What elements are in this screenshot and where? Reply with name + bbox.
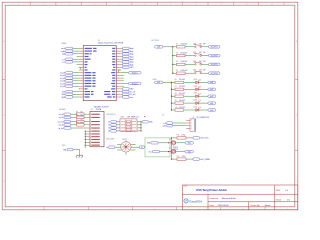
svg-text:10K: 10K [80,122,82,124]
svg-text:SW1: SW1 [193,43,196,45]
wire [71,116,77,118]
svg-text:DIP_SWITCh x 4: DIP_SWITCh x 4 [128,116,140,118]
wire [84,113,87,115]
switch SW3 [194,62,202,65]
port flag Button1 [129,71,142,74]
net flag swdio [66,50,73,52]
svg-text:J4: J4 [193,117,195,119]
wire from U1 right pin row 19 [121,96,123,98]
resistor R7 [175,88,184,90]
svg-text:Date:: Date: [209,204,214,207]
dip switch element 1 [126,121,130,123]
svg-text:led5: led5 [210,110,213,112]
wire [85,136,87,138]
wire [85,144,87,146]
wire [172,88,176,90]
wire [199,109,208,111]
wire [176,142,185,144]
svg-text:4: 4 [94,4,95,6]
net flag sda5 [167,125,173,127]
svg-text:txd0: txd0 [62,53,65,56]
svg-text:DV6 Tang Primer Addon: DV6 Tang Primer Addon [196,188,227,192]
svg-text:d1: d1 [108,122,110,124]
transistor Q1 [167,141,176,146]
svg-text:2025-09-09: 2025-09-09 [218,205,229,207]
net flag GND [123,66,130,68]
wire [115,146,118,148]
resistor R8 [77,124,85,127]
net flag sd_clk [64,124,71,126]
junction [171,102,172,103]
wire [184,88,195,90]
svg-text:dbg6: dbg6 [130,64,134,66]
wire from U1 right pin row 17 [121,91,123,93]
wire [116,124,120,126]
svg-text:SW5: SW5 [121,116,124,118]
svg-text:SW3: SW3 [193,61,196,63]
ic U1 body [83,46,116,101]
wire to U1 left pin row 5 [73,58,79,60]
svg-text:4: 4 [154,208,155,210]
net flag enc_b [139,146,144,148]
wire [199,88,208,90]
junction [168,151,169,152]
svg-text:KEY_TVB: KEY_TVB [199,61,205,63]
wire [185,55,194,57]
power flag 3V3 [155,81,164,84]
U2 left pins [87,114,90,145]
svg-text:10KΩ 0402: 10KΩ 0402 [181,61,188,63]
svg-text:led2: led2 [210,89,213,91]
svg-text:Button2: Button2 [132,82,138,85]
svg-text:R2: R2 [176,52,178,54]
wire [116,121,120,123]
svg-text:d2: d2 [108,125,110,127]
wire to U1 left pin row 10 [73,72,79,74]
wire from U1 right pin row 2 [121,50,123,52]
svg-text:5V0: 5V0 [188,143,191,145]
net flag dbg3 [123,55,130,57]
svg-text:SW2: SW2 [193,52,196,54]
wire [184,81,195,83]
wire [160,151,168,153]
wire to U1 left pin row 2 [73,50,79,52]
wire [71,124,77,126]
wire [163,46,173,48]
net flag I2C_dat [123,93,130,95]
svg-text:R8: R8 [76,122,78,124]
svg-text:TF-01A: TF-01A [96,108,103,111]
wire to U1 left pin row 3 [73,53,79,55]
wire [172,109,176,111]
wire [85,133,87,135]
U1 right pins [116,48,121,97]
svg-text:3V3: 3V3 [157,82,160,84]
svg-text:sd_clk: sd_clk [59,125,64,127]
junction [85,142,86,143]
wire [172,102,176,104]
wire [185,72,194,74]
svg-text:4: 4 [191,128,192,130]
wire stubs U1 left rows 4,7 [77,56,79,58]
svg-text:10K: 10K [80,119,82,121]
wire to U1 left pin row 1 [73,47,79,49]
svg-text:R7: R7 [175,86,177,88]
encoder left pins [117,143,121,145]
net flag lcd_d2 [66,77,73,79]
svg-text:sd_cmd: sd_cmd [57,121,63,123]
resistor R2 [177,54,186,56]
svg-text:KEY_TVB: KEY_TVB [199,43,205,45]
ground symbol [76,155,83,158]
svg-text:8: 8 [196,4,197,6]
wire from U1 right pin row 1 [121,47,123,49]
net flag SCL [153,150,160,152]
encoder top pin [125,141,127,142]
wire from U1 right pin row 7 [121,64,123,66]
svg-text:swdio: swdio [61,51,65,53]
svg-text:2: 2 [66,208,67,210]
resistor R9 [175,102,184,104]
junction [171,158,172,159]
wire [199,81,208,83]
svg-text:swclk: swclk [61,48,65,50]
net flag SDA [151,142,158,144]
svg-text:mI2C_CLK: mI2C_CLK [200,138,209,140]
svg-text:R6: R6 [175,79,177,81]
wire [116,127,120,129]
svg-text:LED1: LED1 [194,79,198,81]
svg-text:R10: R10 [175,107,178,109]
wire [199,102,208,104]
net flag GND [66,93,73,95]
wire from U1 right pin row 10 [121,72,129,74]
dip switch element 4 [126,130,130,132]
svg-text:3V3: 3V3 [157,47,160,49]
svg-text:buzz: buzz [130,97,134,99]
svg-text:S1_KEY1: S1_KEY1 [211,47,218,49]
net flag dbg4 [123,58,130,60]
svg-text:dbg4: dbg4 [130,59,134,61]
title block frame [182,185,297,210]
net flag ds4 [111,130,117,132]
net flag lcd_d0 [66,72,73,74]
svg-text:6: 6 [243,208,244,210]
net flag led4 [208,102,216,104]
junction [85,145,86,146]
U1 pin name texts [85,48,116,98]
net flag dbg2 [123,53,130,55]
svg-text:10KΩ 0402: 10KΩ 0402 [181,70,188,72]
wire [85,130,87,132]
svg-text:KEY_TVB: KEY_TVB [199,70,205,72]
wire [173,46,177,48]
i2c 5V bus wire [171,138,173,159]
svg-text:REV:: REV: [276,190,281,192]
wire [202,46,209,48]
wire [202,72,209,74]
svg-text:LED5: LED5 [194,107,198,109]
encoder right pins [131,143,136,145]
svg-text:Sipeed_Tang_Primer_25K_FPGA: Sipeed_Tang_Primer_25K_FPGA [98,42,124,45]
svg-text:U2: U2 [91,109,93,111]
junction [85,139,86,140]
switch SW1 [194,45,202,48]
junction [85,131,86,132]
resistor R1 [177,46,186,48]
svg-text:EC11: EC11 [123,139,127,141]
wire [137,124,141,126]
junction [140,124,141,125]
net flag lcd_d5 [66,85,73,87]
net flag I2C_DATA [193,158,200,160]
wire [172,81,176,83]
svg-text:6: 6 [145,4,146,6]
svg-text:9: 9 [221,4,222,6]
net flag sd_cmd [64,120,71,122]
wire [173,125,186,127]
net flag I2C_CLK [193,137,200,139]
svg-text:Maverick-Shah: Maverick-Shah [222,197,237,200]
net flag sd_d1 [64,116,71,118]
svg-text:1: 1 [22,208,23,210]
dip switch element 2 [126,124,130,126]
dip switch rails [124,120,126,131]
svg-text:2: 2 [191,123,192,125]
svg-text:1KΩ 0402: 1KΩ 0402 [179,93,185,95]
junction [172,73,173,74]
resistor R3 [177,63,186,65]
svg-text:Company:: Company: [209,198,219,200]
svg-text:KEY_TVB: KEY_TVB [199,52,205,54]
svg-text:dbg1: dbg1 [130,51,134,53]
junction [172,46,173,47]
net flag dbg6 [123,63,130,65]
junction [140,127,141,128]
net flag led1 [208,81,216,83]
junction [172,64,173,65]
svg-text:u_rx: u_rx [62,58,66,61]
wire [172,95,176,97]
U2 pin name texts [91,114,100,146]
junction [168,142,169,143]
svg-text:R8: R8 [175,93,177,95]
svg-text:led4: led4 [210,103,213,105]
led LED1 [196,79,201,84]
svg-text:3: 3 [69,4,70,6]
svg-text:Q1: Q1 [169,139,171,141]
wire from U1 right pin row 4 [121,56,123,58]
wire [185,46,194,48]
svg-text:10K: 10K [80,112,82,114]
svg-text:BUTTONS: BUTTONS [152,40,159,42]
svg-text:10KΩ 0402: 10KΩ 0402 [181,52,188,54]
wire [84,124,87,126]
frame inner border [5,5,295,207]
svg-text:Q2: Q2 [169,148,171,150]
svg-text:R4: R4 [176,70,178,72]
net flag ds2 [111,124,117,126]
wire [85,141,87,143]
resistor R11 [177,137,186,139]
resistor R4 [177,72,186,74]
net flag sd_d0 [64,113,71,115]
svg-text:2: 2 [43,4,44,6]
svg-text:5V0: 5V0 [188,151,191,153]
wire [184,95,195,97]
wire [163,81,172,83]
svg-text:TITLE:: TITLE: [183,186,188,188]
wire [176,151,185,153]
wire to U1 left pin row 19 [73,96,79,98]
svg-text:LED3: LED3 [194,93,198,95]
svg-text:lcd_d0: lcd_d0 [60,73,65,75]
wire [137,127,141,129]
junction [140,121,141,122]
led LED5 [196,107,201,112]
svg-text:LED2: LED2 [194,86,198,88]
resistor R12 [177,158,186,160]
net flag led2 [208,88,216,90]
junction [140,130,141,131]
svg-text:1KΩ 0402: 1KΩ 0402 [179,79,185,81]
svg-text:1: 1 [18,4,19,6]
resistor R10 [175,109,184,111]
net flag lcd_d3 [66,80,73,82]
buttons supply bus wire [172,47,174,73]
leds supply bus wire [171,82,173,110]
svg-text:P4_CONNECTOR: P4_CONNECTOR [197,117,211,119]
svg-text:1: 1 [191,120,192,122]
junction [172,55,173,56]
svg-text:lcd_d1: lcd_d1 [60,75,65,77]
wire [84,116,87,118]
wire to U1 left pin row 6 [73,61,79,63]
svg-text:sd_d0: sd_d0 [59,114,64,116]
junction [171,82,172,83]
wire [173,55,177,57]
wire [158,142,167,144]
svg-text:5: 5 [119,4,120,6]
connector J4 body [190,119,196,131]
net flag enc_sw [109,146,115,148]
wire from U1 right pin row 6 [121,61,123,63]
wire [172,158,178,160]
svg-text:1KΩ 0402: 1KΩ 0402 [179,107,185,109]
wire to U1 left pin row 11 [73,74,79,76]
junction [171,89,172,90]
wire from U1 right pin row 3 [121,53,123,55]
net flag txd0 [66,53,73,55]
svg-text:BSS138: BSS138 [173,147,178,149]
power flag 3V3 [155,46,164,49]
net flag u_rx [66,58,73,60]
svg-text:lcd_d4: lcd_d4 [60,83,65,85]
net flag dbg5 [123,61,130,63]
svg-text:4.7KΩ: 4.7KΩ [182,156,186,158]
wire [141,121,142,123]
net flag I2C_clk [123,90,130,92]
resistor R6 [77,116,85,119]
net flag ds3 [111,127,117,129]
U2 ground bus wire [84,131,86,148]
net flag buzz [123,96,130,98]
switch SW2 [194,54,202,57]
svg-text:S1_KEY4: S1_KEY4 [211,73,218,75]
port flag Button2 [129,82,142,85]
wire to U1 left pin row 17 [73,91,79,93]
wire to U1 left pin row 12 [73,77,79,79]
svg-text:S1_KEY3: S1_KEY3 [211,64,218,66]
svg-text:LED4: LED4 [194,100,198,102]
EasyEDA logo [184,199,203,204]
switch SW4 [194,71,202,74]
svg-text:lcd_d3: lcd_d3 [60,81,65,83]
svg-text:Sheet:: Sheet: [276,199,282,202]
svg-text:dbg5: dbg5 [130,62,134,64]
svg-text:u_tx: u_tx [62,61,65,64]
net flag dbg0 [123,47,130,49]
wire [71,121,77,123]
wire from U1 right pin row 14 [121,83,129,85]
net flag led5 [208,109,216,111]
net flag swclk [66,47,73,49]
level shifter group box [145,138,170,157]
wire stubs U1 right rows 11-15 [121,74,124,76]
net flag GND [123,88,130,90]
svg-text:3: 3 [110,208,111,210]
port flag S1 [209,46,221,49]
wire [202,55,209,57]
net flag GND [66,96,73,98]
svg-text:SW4: SW4 [193,70,196,72]
svg-text:lcd_d2: lcd_d2 [60,78,65,80]
svg-text:d3: d3 [108,128,110,130]
svg-text:10KΩ 0402: 10KΩ 0402 [181,44,188,46]
wire to U1 left pin row 18 [73,93,79,95]
wire [116,130,120,132]
power flag 5V0 row2 [185,150,194,153]
svg-text:EasyEDA: EasyEDA [189,199,203,203]
wire [136,146,140,148]
resistor R6 [175,81,184,83]
wire [186,137,193,139]
junction [85,133,86,134]
ic U2 body [90,111,104,146]
wire from U1 right pin row 5 [121,58,123,60]
svg-text:ENCODER: ENCODER [107,139,116,141]
wire [173,122,186,124]
svg-text:dbg3: dbg3 [130,56,134,58]
svg-text:11: 11 [271,4,273,6]
transistor Q2 [167,149,176,154]
wire [85,139,87,141]
led LED4 [196,100,201,105]
svg-text:S1_KEY2: S1_KEY2 [211,55,218,57]
svg-text:sda5: sda5 [163,126,167,128]
wire [73,150,80,156]
svg-text:Shark: Shark [265,204,271,207]
wire [199,95,208,97]
junction [171,109,172,110]
svg-text:R6: R6 [76,115,78,117]
wire [84,121,87,123]
svg-text:dbg2: dbg2 [130,54,134,56]
wire stub U1 left row 8 [79,67,81,69]
svg-text:3: 3 [191,125,192,127]
svg-text:5: 5 [198,208,199,210]
wire to U1 left pin row 15 [73,85,79,87]
